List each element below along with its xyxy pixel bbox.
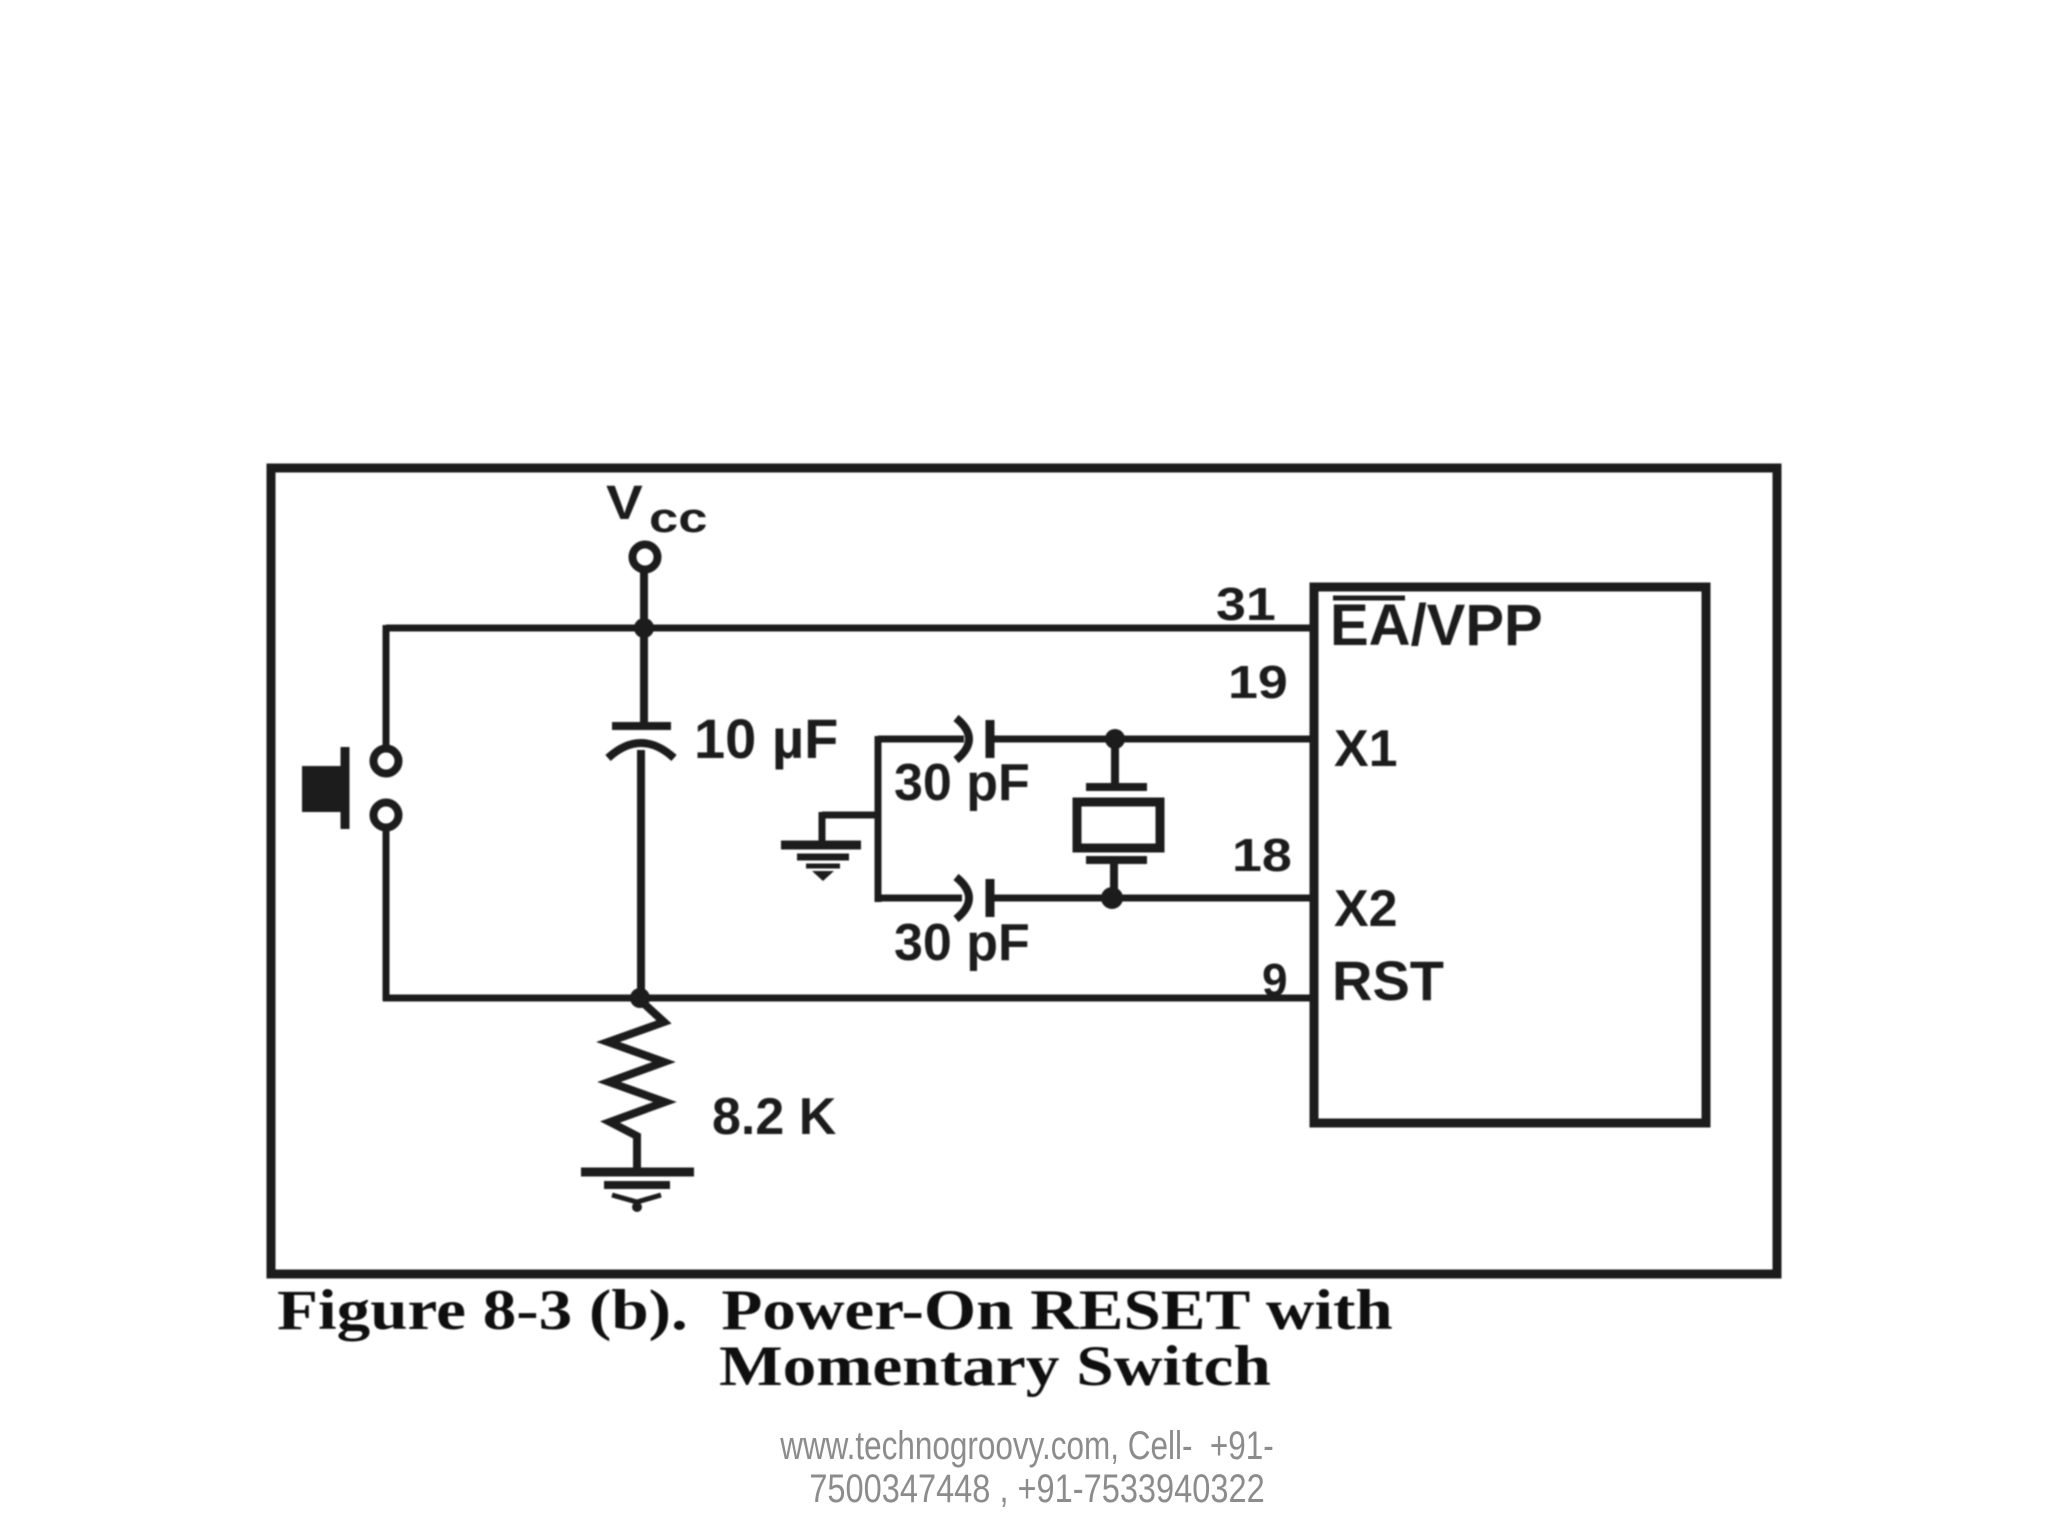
capacitor C2 curved plate <box>956 718 969 760</box>
wire: top EA net <box>386 625 1311 632</box>
footer website/contact text <box>779 1422 1273 1510</box>
EA overline <box>1333 596 1405 601</box>
figure caption <box>277 1280 1393 1398</box>
ground symbol below R1 <box>581 1172 694 1212</box>
svg-text:Momentary Switch: Momentary Switch <box>719 1335 1271 1398</box>
crystal Y1 bottom plate <box>1086 856 1147 864</box>
svg-text:9: 9 <box>1262 954 1288 1006</box>
wire: C1 lower lead <box>637 750 645 998</box>
svg-text:X2: X2 <box>1334 880 1398 938</box>
svg-text:V: V <box>606 475 643 529</box>
wire: X2 net <box>878 895 1311 902</box>
junction node RST/C1/R1 <box>630 988 650 1008</box>
svg-text:RST: RST <box>1332 949 1444 1012</box>
switch SW1 actuator bar <box>341 747 350 829</box>
switch SW1 top contact <box>374 749 399 774</box>
wire: crystal ground stub <box>822 812 881 842</box>
svg-text:7500347448 , +91-7533940322: 7500347448 , +91-7533940322 <box>809 1466 1264 1511</box>
crystal Y1 body <box>1077 802 1160 848</box>
svg-text:31: 31 <box>1216 579 1276 630</box>
wire: Vcc stem <box>640 572 648 724</box>
crystal Y1 top plate <box>1086 783 1147 791</box>
wire: left drop upper <box>383 625 390 748</box>
capacitor C2 flat plate <box>986 720 995 758</box>
svg-text:X1: X1 <box>1334 720 1398 778</box>
capacitor C1 top plate <box>612 722 671 730</box>
svg-text:30 pF: 30 pF <box>894 754 1030 812</box>
switch SW1 button body <box>302 766 342 812</box>
resistor R1 zigzag <box>608 1000 665 1168</box>
wire: left rail of crystal caps <box>875 736 882 902</box>
junction node X2/crystal <box>1101 887 1123 909</box>
svg-text:8.2 K: 8.2 K <box>712 1088 837 1146</box>
svg-text:Figure 8-3 (b). Power-On RESE: Figure 8-3 (b). Power-On RESET with <box>277 1280 1393 1342</box>
Vcc terminal circle <box>633 545 658 570</box>
capacitor C3 curved plate <box>956 877 969 919</box>
wire: RST net <box>640 995 1311 1002</box>
IC U1 (8051) box <box>1314 587 1706 1123</box>
junction node Vcc/EA <box>634 618 654 638</box>
svg-text:EA/VPP: EA/VPP <box>1330 593 1543 658</box>
svg-text:www.technogroovy.com, Cell- +: www.technogroovy.com, Cell- +91- <box>779 1422 1273 1468</box>
svg-text:cc: cc <box>649 495 707 542</box>
junction node X1/crystal <box>1105 729 1125 749</box>
svg-text:18: 18 <box>1232 830 1292 881</box>
switch SW1 bottom contact <box>374 803 399 828</box>
ground symbol at crystal caps <box>781 845 861 881</box>
capacitor C1 curved plate <box>608 743 674 758</box>
wire: left drop lower <box>383 828 645 1001</box>
wire: crystal top lead <box>1111 739 1119 788</box>
wire: X1 net <box>878 736 1311 743</box>
svg-text:19: 19 <box>1228 657 1288 708</box>
svg-text:10 µF: 10 µF <box>694 707 838 770</box>
svg-text:30 pF: 30 pF <box>894 914 1030 972</box>
capacitor C3 flat plate <box>986 879 995 917</box>
wire: crystal bottom lead <box>1110 858 1118 898</box>
figure border <box>271 468 1777 1274</box>
